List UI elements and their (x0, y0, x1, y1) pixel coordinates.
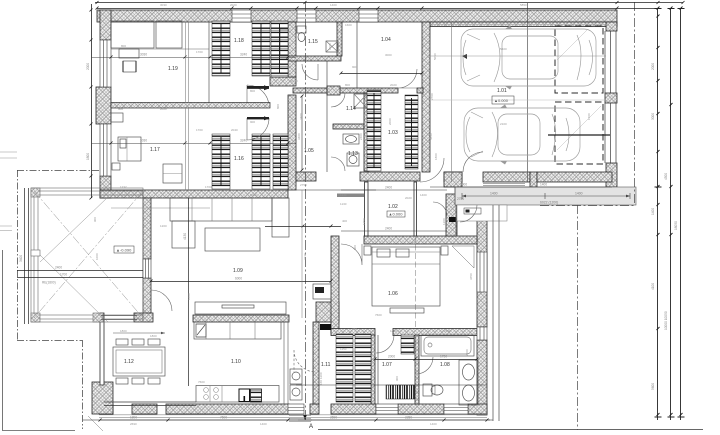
room labels (114, 37, 514, 368)
svg-text:2280: 2280 (405, 416, 412, 420)
svg-text:1232: 1232 (120, 185, 127, 189)
svg-text:1.08: 1.08 (440, 362, 450, 368)
dim 1.04 y73 (341, 73, 422, 75)
svg-text:3400: 3400 (19, 255, 23, 262)
svg-text:4130: 4130 (183, 233, 187, 240)
dim chain living y281 (151, 281, 331, 283)
terrace border (31, 188, 143, 322)
windows (100, 10, 616, 414)
window: top wall 2 (297, 10, 316, 22)
svg-text:4100: 4100 (651, 283, 655, 290)
parking bay diagonal marks (557, 30, 601, 150)
garage grid line x527 (527, 3, 529, 182)
wall: lower wing right exterior (477, 205, 487, 327)
svg-text:4750: 4750 (410, 241, 417, 245)
door arc walkway to garage (463, 152, 483, 172)
wall: left exterior lower segment (100, 176, 111, 198)
svg-text:1.16: 1.16 (234, 156, 244, 162)
svg-text:A: A (309, 424, 313, 430)
svg-text:800: 800 (121, 44, 126, 48)
svg-text:5850: 5850 (429, 133, 433, 140)
svg-text:750: 750 (352, 327, 357, 331)
svg-text:2020: 2020 (230, 3, 237, 7)
svg-text:1.07: 1.07 (382, 362, 392, 368)
svg-text:1130: 1130 (340, 193, 347, 197)
wing interior wall y103 hatched (111, 103, 270, 109)
svg-text:1700: 1700 (196, 128, 203, 132)
wardrobe room 1.16 col1 (212, 134, 230, 189)
wall: 1.14-1.13 east (364, 93, 369, 171)
line left edge small marks (0, 152, 17, 231)
garage dim line (430, 55, 606, 57)
svg-text:6000: 6000 (250, 193, 257, 197)
terrace post south-right junction (93, 313, 103, 322)
dim chain garage door y196 (296, 189, 376, 191)
furniture (101, 21, 478, 405)
wardrobe room 1.11 col2 (355, 334, 371, 402)
svg-text:1.12: 1.12 (124, 359, 134, 365)
svg-text:1.13: 1.13 (348, 151, 358, 157)
wardrobe room 1.18 col2 (252, 21, 270, 76)
svg-text:2100: 2100 (500, 122, 507, 126)
svg-text:900: 900 (250, 120, 255, 124)
marker living room level (114, 246, 134, 253)
corridor arrows dims (247, 88, 269, 90)
wing partition x185 (186, 22, 189, 190)
svg-text:400: 400 (311, 90, 316, 94)
hall line x302 (301, 190, 303, 318)
door arc terrace (151, 290, 172, 311)
entry steps outside (289, 416, 311, 422)
entry level marker (464, 208, 481, 214)
sofa 1.09 chaise left (172, 221, 195, 248)
svg-text:1800: 1800 (120, 329, 127, 333)
svg-text:1.01: 1.01 (497, 88, 507, 94)
svg-text:4130: 4130 (303, 253, 307, 260)
svg-text:1000: 1000 (187, 293, 191, 300)
gray entry walkway east of vestibule (455, 187, 636, 221)
hallway shaft box (313, 284, 331, 299)
svg-text:5400: 5400 (500, 47, 507, 51)
svg-text:2020: 2020 (405, 196, 412, 200)
kitchen hall threshold band (337, 194, 364, 198)
wc room 1.13 (347, 153, 359, 166)
garage 1.01 (430, 25, 610, 165)
svg-text:1400: 1400 (651, 208, 655, 215)
svg-text:1.04: 1.04 (381, 37, 391, 43)
svg-text:1200: 1200 (160, 224, 167, 228)
wall: kitchen / 1.11 partition (313, 322, 319, 404)
closet room 1.17 (111, 113, 123, 122)
wall: bedroom 1.06 south / bath north (331, 329, 375, 336)
kitchen sink (204, 388, 209, 393)
wall: room 1.15 / 1.04 partition (337, 22, 342, 56)
car 2 (bottom) (464, 105, 580, 165)
svg-text:3240: 3240 (240, 53, 247, 57)
basin room 1.13 (343, 134, 359, 144)
small interior dim texts scattered (93, 3, 591, 426)
terrace diagonal 1 (34, 191, 143, 318)
window: garage east lower (605, 103, 616, 163)
svg-text:1950: 1950 (362, 218, 366, 225)
svg-text:1200: 1200 (328, 43, 332, 50)
svg-text:7600: 7600 (220, 416, 227, 420)
door arc hall to vestibule (433, 202, 447, 216)
door leaf vestibule black (449, 217, 456, 222)
svg-text:3030: 3030 (140, 139, 147, 143)
svg-text:1400: 1400 (490, 192, 498, 196)
wall: top exterior (97, 10, 617, 22)
svg-text:2000: 2000 (388, 355, 395, 359)
cabinet room 1.17 (163, 164, 182, 183)
svg-text:3400: 3400 (299, 113, 303, 120)
svg-text:1800: 1800 (86, 153, 90, 160)
kitchen-hall partition x284 (284, 322, 288, 404)
door arc room 1.13 (331, 157, 345, 171)
svg-text:▲0.000: ▲0.000 (389, 212, 404, 217)
dining dim arrow (113, 332, 165, 334)
svg-text:900: 900 (93, 217, 97, 222)
svg-text:1600: 1600 (345, 23, 352, 27)
svg-text:3000: 3000 (651, 113, 655, 120)
wall: below 1.04 (293, 88, 398, 93)
dim ticks right (655, 7, 685, 418)
svg-text:5600: 5600 (651, 383, 655, 390)
svg-text:7600: 7600 (198, 380, 205, 384)
svg-text:2020: 2020 (390, 83, 397, 87)
svg-text:RE(1800): RE(1800) (42, 281, 56, 285)
sill band bottom (99, 415, 487, 418)
door leaf kitchen black (320, 324, 331, 330)
svg-text:4500: 4500 (664, 173, 668, 180)
svg-text:7600: 7600 (375, 313, 382, 317)
svg-text:900: 900 (353, 245, 357, 250)
svg-text:1.18: 1.18 (234, 38, 244, 44)
svg-text:2000: 2000 (388, 118, 392, 125)
wardrobe room 1.16 col2 (252, 134, 270, 189)
window: top wall 1 (232, 10, 251, 22)
door arc wing room 1.17 (247, 118, 269, 140)
misc thin construction lines (0, 22, 477, 404)
svg-text:1730: 1730 (440, 355, 447, 359)
wall: 1.11 / 1.07 partition (371, 335, 375, 404)
garage grid line x451 (451, 22, 453, 182)
vestibule inner wall (456, 205, 477, 236)
wall: garage east pier (605, 93, 617, 103)
section line bottom horizontal (318, 429, 703, 431)
svg-text:900: 900 (395, 376, 399, 381)
svg-text:3650: 3650 (469, 273, 473, 280)
wardrobes (striped) (212, 21, 418, 402)
terrace post top-left (31, 188, 40, 197)
svg-text:1.10: 1.10 (231, 359, 241, 365)
towel radiator bath 1.07 (386, 385, 415, 399)
svg-text:900: 900 (352, 65, 357, 69)
washer pair room 1.11 (290, 369, 302, 384)
svg-text:160 1200: 160 1200 (319, 372, 323, 385)
svg-text:1400: 1400 (575, 192, 583, 196)
parking bay dashed 2 (555, 102, 603, 164)
wall: 1.14/1.13 partition (333, 124, 368, 129)
svg-text:1.15: 1.15 (308, 39, 318, 45)
terrace diagonal 4 (40, 197, 108, 262)
dim line top inner (97, 8, 658, 10)
bedside table 1.06 left (364, 246, 371, 255)
dim vertical x188 living (188, 198, 190, 386)
dim texts right (651, 63, 678, 390)
wall: garage bottom (444, 172, 462, 182)
wc room 1.08 (423, 384, 432, 396)
svg-text:2690: 2690 (130, 422, 137, 426)
kitchen stove symbol (196, 324, 206, 337)
terrace diagonal 3 (40, 255, 108, 322)
wall: kitchen/bedroom junction block (316, 302, 339, 322)
wall: hall 1.02 east thin (414, 182, 417, 236)
door arc walkway to vestibule (460, 205, 477, 222)
door arc room 1.14 (331, 93, 345, 107)
svg-text:3000: 3000 (385, 53, 392, 57)
garage bottom dims (296, 384, 487, 386)
dim ticks left (90, 9, 93, 200)
bathtub room 1.08 (421, 335, 474, 356)
svg-text:1400: 1400 (420, 193, 427, 197)
car 1 (top) (461, 26, 596, 90)
wardrobe room 1.11 col1 (336, 334, 353, 402)
svg-text:1.19: 1.19 (168, 66, 178, 72)
centre line y205 horizontal (540, 205, 634, 207)
kitchen wall cabinets row (194, 322, 281, 339)
svg-text:▲-0.090: ▲-0.090 (116, 248, 132, 253)
dining chairs top (116, 339, 128, 345)
washer room 1.07 (401, 335, 414, 354)
door arc bath 1.07 (376, 335, 394, 353)
svg-text:3030: 3030 (140, 53, 147, 57)
corridor vertical dims x327 (326, 61, 328, 172)
door arc kitchen (294, 350, 316, 372)
svg-text:2700: 2700 (430, 93, 434, 100)
svg-text:10000 10050: 10000 10050 (664, 311, 668, 330)
bottom dim line (100, 419, 490, 421)
section line A bottom mark (303, 415, 307, 420)
window: right wall bedroom 1.06 (477, 327, 487, 340)
grid dash line x415.5 (415, 236, 417, 328)
window: living room west wall (143, 259, 151, 278)
svg-text:1.03: 1.03 (388, 130, 398, 136)
terrace post bottom-left (31, 313, 40, 322)
svg-text:1800: 1800 (130, 416, 137, 420)
window: top wall 3 (359, 10, 378, 22)
bath vertical dim x375 (377, 335, 379, 404)
window: left wall room 1.19 (100, 40, 111, 87)
svg-text:▲0.000: ▲0.000 (494, 98, 509, 103)
wall: garage top inner band (430, 22, 617, 27)
svg-text:2400: 2400 (385, 186, 392, 190)
wall: bedroom 1.06 north (364, 236, 477, 244)
centre line x634 (634, 2, 636, 205)
wall: hall 1.02 west thin (365, 182, 369, 236)
svg-text:1400: 1400 (330, 3, 337, 7)
svg-text:5850: 5850 (520, 3, 527, 7)
svg-text:2400: 2400 (385, 227, 392, 231)
svg-text:1.11: 1.11 (321, 362, 331, 368)
dim ticks top (96, 1, 685, 10)
door arc bedroom 1.06 (341, 244, 362, 265)
plot frame bottom-left (3, 250, 76, 431)
svg-text:2690: 2690 (330, 416, 337, 420)
svg-text:1130: 1130 (340, 202, 347, 206)
wall: left exterior mid segment (96, 87, 111, 124)
door arc room 1.04 (398, 69, 417, 88)
dim line terrace left (24, 188, 26, 324)
wall: vestibule west hatched (446, 194, 457, 236)
svg-text:1.06: 1.06 (388, 291, 398, 297)
door leaf wing black 1 (247, 86, 269, 88)
dim line right 2 (670, 8, 672, 420)
doors (151, 64, 483, 374)
wall: dining west thin lower (100, 313, 104, 385)
svg-text:1.09: 1.09 (233, 268, 243, 274)
wall: 1.07 / 1.08 partition (415, 335, 419, 404)
bench 1.06 foot (390, 308, 424, 313)
svg-text:1800: 1800 (150, 334, 157, 338)
svg-text:1.17: 1.17 (150, 147, 160, 153)
wall: below 1.18 closet (270, 77, 296, 86)
dresser 1.06 corner (452, 246, 474, 268)
svg-text:5050: 5050 (433, 53, 437, 60)
svg-text:1150: 1150 (340, 347, 347, 351)
corner step diagonal (88, 416, 103, 431)
svg-text:1800: 1800 (434, 153, 438, 160)
kitchen dark appliance striped (251, 389, 262, 402)
svg-text:3400: 3400 (297, 133, 301, 140)
dining table 1.12 (113, 347, 165, 376)
wing mid shelf line room 1.17 (111, 207, 210, 209)
eave line right of lower wing (493, 205, 499, 421)
window: left wall room 1.17 (100, 124, 111, 176)
wardrobe corridor 1.03 east (405, 95, 418, 169)
dim chain wing y143 (91, 143, 296, 145)
wc room 1.15 (297, 26, 306, 33)
side table room 1.17 (112, 163, 120, 170)
door arc room 1.15 (302, 64, 318, 80)
svg-text:6000: 6000 (235, 277, 242, 281)
dim line right 3 (680, 8, 682, 420)
wall: bottom exterior (99, 404, 113, 414)
dim line left outer (91, 4, 93, 198)
shower room 1.14 (354, 94, 367, 108)
wall: pier left of entry (444, 172, 462, 187)
wardrobe room 1.18 col1 (212, 21, 230, 76)
eave line bottom (83, 419, 493, 421)
svg-text:1700: 1700 (205, 185, 212, 189)
door arc wing room 1.19 (247, 85, 269, 107)
bath dim y360 (375, 359, 477, 361)
closet divider line room 1.19 (208, 22, 210, 103)
svg-text:1400: 1400 (430, 422, 437, 426)
wall: living/dining door jamb (134, 313, 153, 322)
window: bottom wall 1.08 (444, 404, 468, 414)
dim chain y226 hall (265, 226, 341, 228)
svg-text:800: 800 (250, 89, 255, 93)
sofa 1.09 right return (272, 198, 289, 237)
shower room 1.15 (326, 41, 338, 52)
svg-text:1400: 1400 (260, 422, 267, 426)
wardrobe centre rails (221, 24, 412, 399)
svg-text:2020: 2020 (291, 79, 298, 83)
double basin room 1.08 (459, 360, 478, 405)
svg-text:3030: 3030 (160, 3, 167, 7)
window: garage east upper (605, 31, 616, 93)
svg-text:2000: 2000 (465, 349, 469, 356)
svg-text:1700: 1700 (196, 50, 203, 54)
wall: left exterior upper segment (100, 10, 111, 40)
window: right wall bath (477, 252, 487, 292)
svg-text:1700: 1700 (60, 273, 67, 277)
svg-text:2000: 2000 (651, 63, 655, 70)
door arc garage (420, 158, 444, 182)
wall: wing right partition x288 (288, 22, 296, 77)
svg-text:3240: 3240 (240, 139, 247, 143)
door arc bath 1.08 (416, 357, 433, 374)
svg-text:800: 800 (345, 83, 350, 87)
bedroom dims y352 (339, 351, 371, 353)
sideboard 1.09 south (195, 302, 286, 314)
wall: garage east corner bottom (606, 163, 617, 187)
svg-text:1200: 1200 (390, 329, 397, 333)
svg-text:6000: 6000 (460, 183, 467, 187)
kitchen bottom counter (196, 386, 279, 403)
wall: bottom-left corner block (92, 382, 113, 414)
radiator room 1.15 (280, 29, 288, 56)
coffee table / rug 1.09 (205, 228, 260, 251)
desk room 1.19 (119, 49, 139, 58)
window: bottom wall dining (104, 402, 196, 406)
svg-text:2000: 2000 (86, 63, 90, 70)
svg-text:400: 400 (342, 219, 347, 223)
closet room 1.19 right (156, 21, 182, 48)
window: bottom wall 1.07 (376, 404, 398, 414)
dining chairs bottom (116, 378, 128, 384)
bedside table 1.06 right (441, 246, 448, 255)
parking bay dashed 1 (555, 26, 603, 93)
wardrobe room 1.16 col3 (273, 134, 288, 189)
wall: kitchen south of living (193, 315, 289, 322)
wall: pier near 1.05 (327, 86, 340, 95)
wall: garage left (422, 22, 430, 172)
workbench garage east (548, 134, 610, 136)
centre line x577 lower (577, 205, 579, 430)
door leaf wing black 2 (247, 117, 269, 119)
entry porch step (457, 205, 507, 221)
wardrobe room 1.18 col3 (271, 21, 288, 77)
wall: bedroom wing bottom (100, 190, 288, 198)
closet room 1.19 left (111, 21, 154, 48)
svg-text:800: 800 (276, 104, 280, 109)
dim line terrace horizontal (17, 270, 143, 272)
dim texts left (86, 63, 90, 160)
terrace post mid-left (31, 250, 40, 256)
dims below garage (430, 186, 612, 188)
svg-text:18050: 18050 (674, 221, 678, 230)
top-left closet line (111, 48, 209, 50)
property line west horizontal to wall (17, 170, 100, 172)
hall dims (341, 189, 447, 191)
svg-text:1.14: 1.14 (346, 106, 356, 112)
bed room 1.17 (118, 137, 141, 161)
section line A vertical (305, 2, 307, 420)
corridor 1.05 vertical dim x302 (301, 96, 303, 170)
dim chain wing y57 (91, 57, 296, 59)
